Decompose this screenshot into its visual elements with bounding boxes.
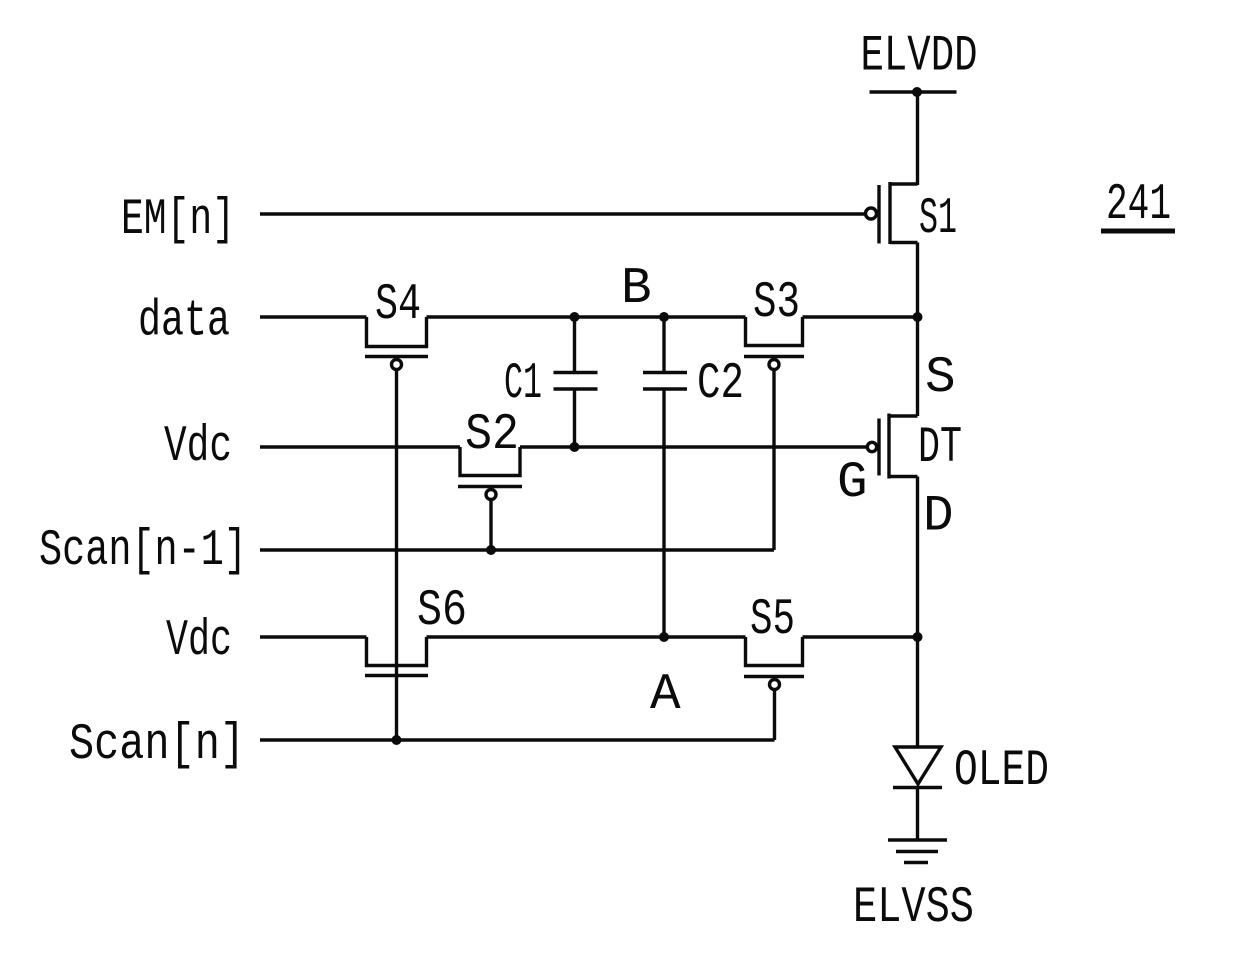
junction Scan[n]/S4 S6 gate wire: [392, 735, 402, 745]
wire node A line: [427, 635, 746, 638]
svg-text:ELVDD: ELVDD: [861, 29, 978, 86]
node S label: [925, 350, 956, 407]
label S4: [375, 277, 421, 334]
node D label: [923, 489, 954, 546]
svg-text:241: 241: [1106, 177, 1171, 234]
wire Scan[n-1]: [260, 548, 774, 551]
capacitor C2: [643, 317, 687, 637]
wire S5 to main vertical: [803, 635, 918, 638]
diode OLED: [893, 747, 942, 840]
wire Vdc lower left: [260, 635, 367, 638]
svg-text:C1: C1: [504, 356, 542, 413]
net label Scan[n]: [69, 717, 245, 774]
svg-text:A: A: [650, 667, 681, 724]
wire data line left: [260, 315, 367, 318]
wire Scan[n]: [260, 738, 775, 741]
junction node B data/C2: [659, 312, 669, 322]
label 241 underlined: [1106, 177, 1171, 234]
junction data/C1: [570, 312, 580, 322]
ground ELVSS: [888, 840, 947, 863]
transistor S4: [365, 317, 428, 370]
transistor DT: [867, 414, 917, 479]
wire Vdc left: [260, 445, 460, 448]
label S5: [750, 592, 795, 649]
svg-text:Vdc: Vdc: [164, 419, 232, 476]
wire S4 gate down to Scan[n]: [395, 370, 398, 741]
label C1: [504, 356, 542, 413]
ELVDD rail bar: [870, 90, 957, 93]
junction ELVDD node: [912, 87, 922, 97]
label S2: [465, 407, 519, 464]
junction Scan[n-1]/S2 gate: [486, 545, 496, 555]
net label Vdc upper: [164, 419, 232, 476]
wire S2 gate down to Scan[n-1]: [489, 500, 492, 551]
net label Vdc lower: [166, 613, 232, 670]
wire S1 drain to DT source: [916, 243, 919, 417]
node G label: [837, 455, 868, 512]
svg-text:Scan[n-1]: Scan[n-1]: [39, 523, 247, 580]
svg-text:S: S: [925, 350, 956, 407]
transistor S2: [458, 447, 522, 500]
net label EM[n]: [121, 192, 235, 249]
label S3: [753, 275, 800, 332]
transistor S6: [365, 637, 428, 676]
net label Scan[n-1]: [39, 523, 247, 580]
label S6: [417, 583, 467, 640]
wire data S3 to main vertical: [803, 315, 918, 318]
svg-text:EM[n]: EM[n]: [121, 192, 235, 249]
junction data/main vertical: [913, 312, 923, 322]
svg-text:ELVSS: ELVSS: [853, 880, 974, 937]
node A label: [650, 667, 681, 724]
capacitor C1: [554, 317, 598, 447]
svg-text:S2: S2: [465, 407, 519, 464]
junction A/C2: [659, 632, 669, 642]
transistor S1: [866, 182, 918, 244]
svg-text:S1: S1: [919, 191, 957, 248]
label S1: [919, 191, 957, 248]
svg-text:DT: DT: [918, 420, 962, 477]
label C2: [697, 356, 744, 413]
transistor S5: [744, 637, 804, 690]
svg-text:G: G: [837, 455, 868, 512]
transistor S3: [744, 317, 804, 370]
svg-text:S6: S6: [417, 583, 467, 640]
svg-text:C2: C2: [697, 356, 744, 413]
label DT: [918, 420, 962, 477]
label OLED: [954, 743, 1049, 800]
svg-text:OLED: OLED: [954, 743, 1049, 800]
net label data: [138, 294, 230, 351]
wire S5 gate down to Scan[n]: [773, 690, 776, 741]
svg-text:S3: S3: [753, 275, 800, 332]
junction A line/main vertical: [913, 632, 923, 642]
power label ELVDD: [861, 29, 978, 86]
svg-text:S5: S5: [750, 592, 795, 649]
wire ELVDD to S1 source: [916, 92, 919, 185]
junction C1/Vdc: [570, 442, 580, 452]
wire S3 gate down to Scan[n-1]: [772, 370, 775, 551]
node B label: [621, 261, 652, 318]
svg-text:Scan[n]: Scan[n]: [69, 717, 245, 774]
wire data S4 to S3: [427, 315, 746, 318]
svg-text:Vdc: Vdc: [166, 613, 232, 670]
svg-text:data: data: [138, 294, 230, 351]
svg-text:S4: S4: [375, 277, 421, 334]
svg-text:D: D: [923, 489, 954, 546]
wire DT drain down: [916, 477, 919, 748]
svg-text:B: B: [621, 261, 652, 318]
power label ELVSS: [853, 880, 974, 937]
wire EM[n] to S1 gate: [260, 212, 865, 215]
wire Vdc S2 to DT gate: [520, 445, 866, 448]
